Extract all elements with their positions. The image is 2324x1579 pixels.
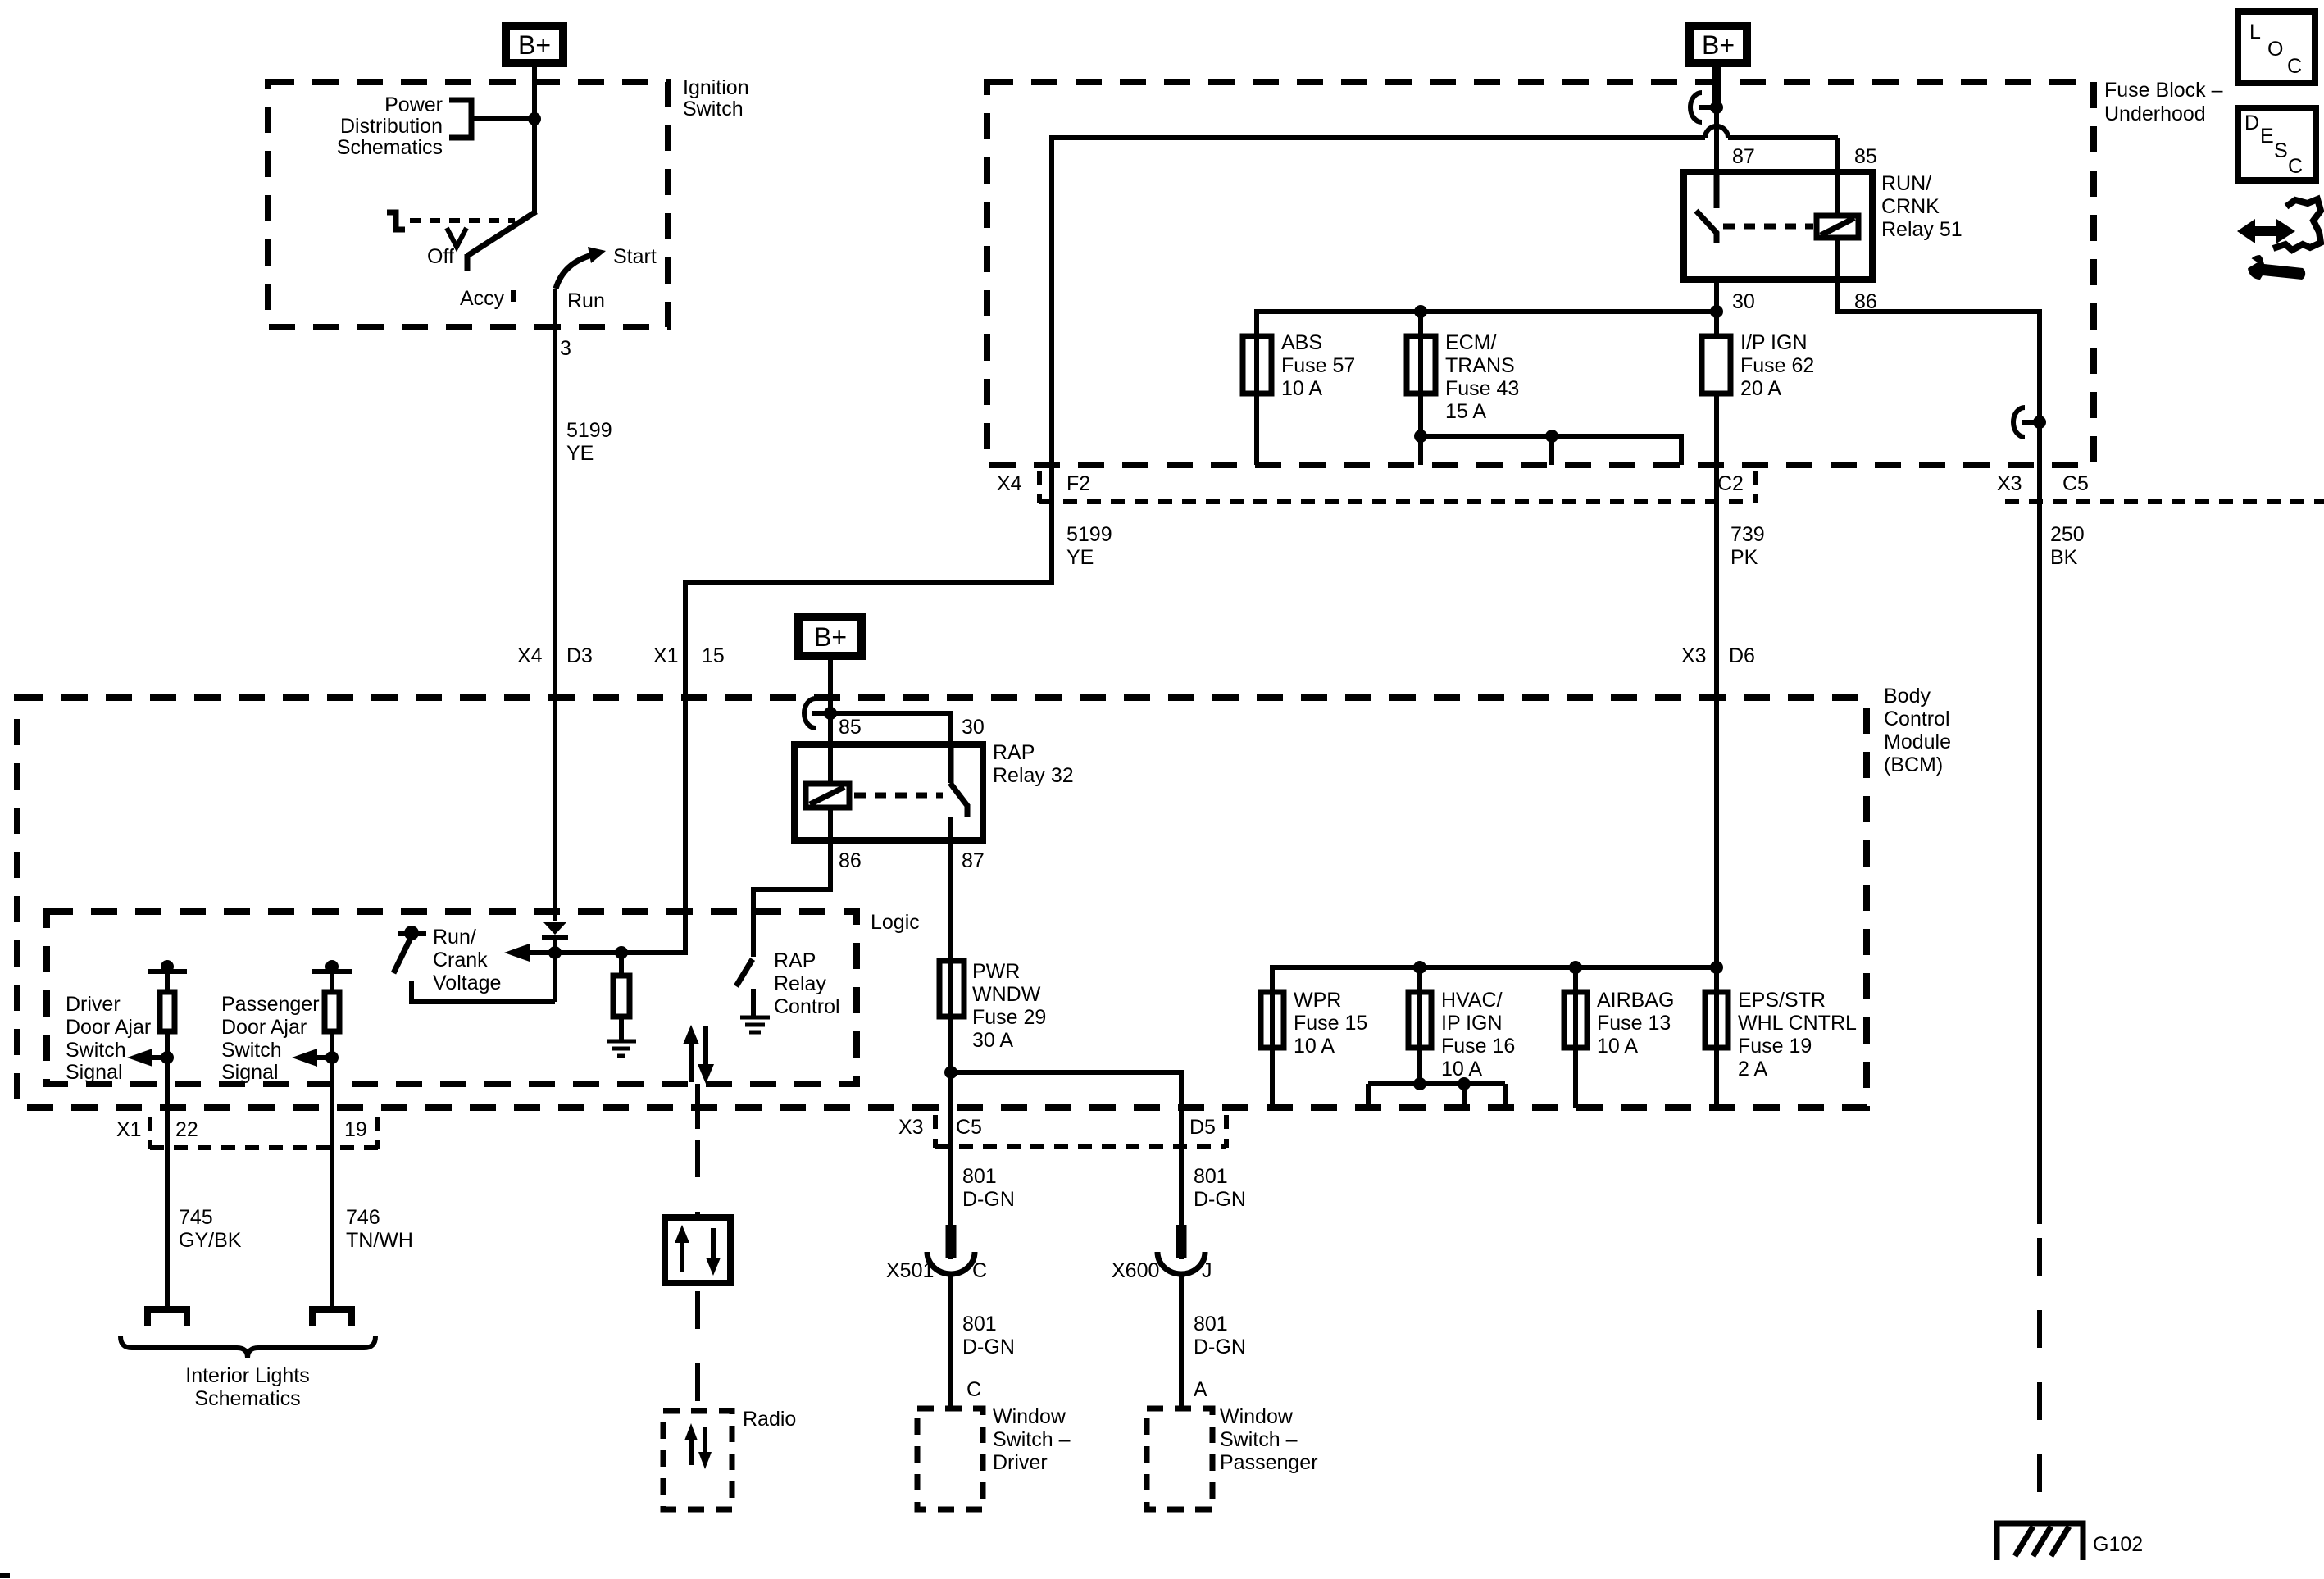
svg-text:15: 15	[702, 644, 725, 667]
wire: ignition Run output (circuit 5199 YE)	[553, 289, 557, 921]
fuse bus bar in fuse block	[1257, 312, 1717, 336]
svg-text:D-GN: D-GN	[1194, 1336, 1246, 1358]
ground (RAP relay control)	[740, 1017, 770, 1032]
svg-text:22: 22	[175, 1118, 198, 1141]
connector X1-15 labels	[653, 644, 725, 667]
svg-text:J: J	[1202, 1259, 1212, 1282]
svg-text:30: 30	[1732, 290, 1755, 313]
passenger door ajar switch signal resistor	[221, 960, 352, 1108]
svg-text:Fuse 29: Fuse 29	[972, 1006, 1046, 1029]
svg-text:Module: Module	[1884, 730, 1951, 753]
svg-text:TN/WH: TN/WH	[346, 1229, 413, 1252]
svg-text:F2: F2	[1066, 472, 1090, 495]
connector X1 22/19 band	[116, 1117, 378, 1149]
window switch passenger dashed box	[1147, 1405, 1318, 1509]
wire to RAP relay pin 30	[830, 713, 951, 744]
svg-text:X1: X1	[653, 644, 679, 667]
svg-text:Signal: Signal	[66, 1061, 123, 1084]
accy position tick	[511, 290, 516, 302]
svg-text:Run/: Run/	[433, 926, 476, 949]
svg-text:Door Ajar: Door Ajar	[66, 1016, 151, 1039]
svg-text:86: 86	[839, 849, 862, 872]
I/P IGN Fuse 62	[1702, 331, 1814, 400]
svg-text:739: 739	[1730, 523, 1765, 546]
BCM ignition fuse bus	[1272, 967, 1717, 992]
relay 51 pin 87 stub and switch blade	[1696, 172, 1717, 243]
svg-text:A: A	[1194, 1378, 1207, 1401]
off position dashed travel line	[410, 218, 515, 223]
svg-text:Relay 32: Relay 32	[993, 764, 1074, 787]
svg-text:D3: D3	[566, 644, 593, 667]
splice clip on 250 BK ground wire	[2013, 407, 2040, 437]
terminal (passenger circuit)	[312, 1309, 352, 1326]
svg-text:C: C	[972, 1259, 987, 1282]
RAP relay actuation dashed link	[854, 793, 943, 799]
relay 51 coil	[1817, 216, 1858, 238]
svg-text:WNDW: WNDW	[972, 983, 1041, 1006]
svg-text:IP IGN: IP IGN	[1441, 1012, 1503, 1035]
run/crank voltage switch	[393, 926, 501, 994]
svg-text:X600: X600	[1112, 1259, 1159, 1282]
svg-text:15 A: 15 A	[1445, 400, 1486, 423]
svg-text:Door Ajar: Door Ajar	[221, 1016, 307, 1039]
logic window command arrows	[683, 1025, 714, 1084]
svg-text:87: 87	[962, 849, 985, 872]
ground G102	[1997, 1523, 2143, 1560]
svg-text:Schematics: Schematics	[337, 136, 443, 159]
WPR Fuse 15	[1261, 989, 1367, 1108]
svg-text:10 A: 10 A	[1441, 1058, 1482, 1081]
driver door ajar signal arrow	[127, 1049, 174, 1067]
svg-text:Schematics: Schematics	[194, 1387, 300, 1410]
relay 51 pin 86 wire to ground circuit	[1838, 238, 2040, 1224]
svg-text:RAP: RAP	[774, 949, 816, 972]
svg-text:Relay: Relay	[774, 972, 826, 995]
svg-text:20 A: 20 A	[1740, 377, 1781, 400]
connector X3-D6 labels	[1681, 644, 1755, 667]
LOC reference box	[2238, 11, 2315, 83]
relay 51 actuation dashed link	[1723, 224, 1813, 230]
off direction chevron	[447, 228, 466, 247]
terminal (driver circuit)	[148, 1309, 187, 1326]
RAP relay 32	[794, 716, 1074, 872]
svg-text:801: 801	[1194, 1165, 1228, 1188]
wire from B+ to ignition switch common	[532, 63, 537, 213]
svg-text:PWR: PWR	[972, 960, 1020, 983]
svg-text:Window: Window	[993, 1405, 1066, 1428]
start travel curve with arrowhead	[556, 247, 606, 289]
window switch driver dashed box	[917, 1405, 1071, 1509]
svg-text:S: S	[2274, 139, 2288, 162]
wire: 739 PK from fuse 62 through C2 to BCM X3-D6	[1714, 394, 1719, 967]
svg-text:801: 801	[1194, 1313, 1228, 1336]
svg-text:B+: B+	[814, 622, 847, 652]
svg-text:Run: Run	[567, 289, 605, 312]
svg-text:RAP: RAP	[993, 741, 1035, 764]
svg-text:Ignition: Ignition	[683, 76, 749, 99]
B+ battery feed (fuse block)	[1690, 26, 1747, 63]
body control module dashed box	[17, 685, 1951, 1108]
B+ battery feed (RAP relay)	[798, 617, 862, 656]
node HVAC tap	[1413, 961, 1426, 974]
svg-text:CRNK: CRNK	[1881, 195, 1940, 218]
relay 51 pin 85 wire	[1835, 138, 1840, 216]
svg-text:WHL CNTRL: WHL CNTRL	[1738, 1012, 1857, 1035]
svg-text:PK: PK	[1730, 546, 1758, 569]
dashed wire to radio	[695, 1291, 700, 1411]
svg-text:Voltage: Voltage	[433, 972, 501, 994]
svg-text:Switch –: Switch –	[993, 1428, 1071, 1451]
inline connector X600 pin J	[1112, 1225, 1212, 1282]
diagnostic tool icon	[2237, 199, 2321, 280]
svg-text:C5: C5	[2062, 472, 2089, 495]
svg-text:X3: X3	[1681, 644, 1707, 667]
driver door ajar switch signal resistor	[66, 960, 187, 1108]
svg-text:Switch: Switch	[221, 1039, 282, 1062]
node at 250 BK splice	[2033, 416, 2046, 429]
wire B+ into fuse block down to relay 51 pin 87	[1714, 63, 1719, 172]
svg-text:Fuse 19: Fuse 19	[1738, 1035, 1812, 1058]
node pin30 / fuse bus	[1710, 305, 1723, 318]
svg-text:Passenger: Passenger	[221, 993, 320, 1016]
svg-text:YE: YE	[566, 442, 594, 465]
svg-text:30 A: 30 A	[972, 1029, 1013, 1052]
wire driver window circuit	[948, 1072, 953, 1408]
relay 51 pin 30 wire	[1714, 280, 1719, 336]
svg-text:Switch: Switch	[683, 98, 744, 121]
svg-text:EPS/STR: EPS/STR	[1738, 989, 1826, 1012]
svg-text:85: 85	[839, 716, 862, 739]
svg-text:19: 19	[344, 1118, 367, 1141]
HVAC fuse output tie bar	[1368, 1077, 1505, 1108]
node: power distribution tap	[528, 112, 541, 125]
svg-text:D: D	[2244, 111, 2259, 134]
svg-text:10 A: 10 A	[1597, 1035, 1638, 1058]
EPS/STR WHL CNTRL Fuse 19	[1705, 967, 1857, 1108]
svg-text:Fuse 43: Fuse 43	[1445, 377, 1519, 400]
power distribution schematics bracket	[337, 93, 471, 159]
svg-text:250: 250	[2050, 523, 2085, 546]
wire: feed bus with hop over B+ wire	[1052, 126, 1838, 138]
off position stop symbol	[387, 212, 405, 230]
HVAC/IP IGN Fuse 16	[1408, 967, 1515, 1084]
ECM fuse output tie bar	[1414, 430, 1681, 465]
svg-text:Fuse 62: Fuse 62	[1740, 354, 1814, 377]
svg-text:RUN/: RUN/	[1881, 172, 1931, 195]
svg-text:Interior Lights: Interior Lights	[185, 1364, 309, 1387]
svg-text:TRANS: TRANS	[1445, 354, 1515, 377]
RAP relay coil	[806, 784, 849, 808]
RAP relay pin 30 stub and blade	[950, 744, 968, 817]
svg-text:Underhood: Underhood	[2104, 102, 2206, 125]
run/crank voltage node wire with arrow	[504, 938, 685, 1002]
svg-text:ABS: ABS	[1281, 331, 1322, 354]
ground (logic resistor)	[607, 1041, 636, 1056]
svg-text:85: 85	[1854, 145, 1877, 168]
svg-text:B+: B+	[1702, 30, 1735, 60]
svg-text:Crank: Crank	[433, 949, 488, 972]
svg-text:Driver: Driver	[993, 1451, 1048, 1474]
svg-text:GY/BK: GY/BK	[179, 1229, 242, 1252]
ignition switch dashed box	[268, 76, 749, 327]
node AIRBAG tap	[1569, 961, 1582, 974]
node window feed split	[944, 1066, 957, 1079]
svg-text:G102: G102	[2093, 1533, 2143, 1556]
wire run/crank switch leg	[412, 981, 555, 1002]
svg-text:I/P IGN: I/P IGN	[1740, 331, 1808, 354]
RAP relay pin 86 wire to logic control	[753, 808, 830, 957]
svg-text:745: 745	[179, 1206, 213, 1229]
svg-text:Body: Body	[1884, 685, 1931, 708]
ignition switch blade (Off position arm)	[467, 212, 536, 271]
window motor direction box	[665, 1217, 730, 1283]
svg-text:Relay 51: Relay 51	[1881, 218, 1962, 241]
svg-text:D6: D6	[1729, 644, 1755, 667]
svg-text:Passenger: Passenger	[1220, 1451, 1318, 1474]
svg-text:Signal: Signal	[221, 1061, 279, 1084]
svg-text:Fuse 57: Fuse 57	[1281, 354, 1355, 377]
node at RAP splice	[824, 707, 837, 720]
AIRBAG Fuse 13	[1564, 967, 1674, 1108]
svg-text:C5: C5	[956, 1116, 982, 1139]
connector X4-D3 labels	[517, 644, 593, 667]
RAP relay pin 87 stub	[948, 817, 953, 840]
ECM/TRANS Fuse 43	[1407, 312, 1519, 465]
svg-text:C: C	[966, 1378, 981, 1401]
splice clip at RAP B+	[804, 698, 830, 728]
svg-text:Driver: Driver	[66, 993, 121, 1016]
node at splice	[1710, 101, 1723, 114]
svg-text:Fuse 13: Fuse 13	[1597, 1012, 1671, 1035]
svg-text:X4: X4	[997, 472, 1022, 495]
svg-text:30: 30	[962, 716, 985, 739]
wire B+ to RAP relay pin 85	[828, 656, 833, 784]
svg-text:(BCM): (BCM)	[1884, 753, 1943, 776]
dashed wire logic to radio	[695, 1084, 700, 1217]
svg-text:5199: 5199	[1066, 523, 1112, 546]
svg-text:Radio: Radio	[743, 1408, 796, 1431]
PWR WNDW Fuse 29	[939, 960, 1046, 1052]
wire: left feed drop to F2 and jog to BCM X1-15	[685, 135, 1052, 955]
connector X4/F2-C2 row	[997, 471, 1755, 503]
svg-text:Fuse 16: Fuse 16	[1441, 1035, 1515, 1058]
svg-text:Control: Control	[1884, 708, 1950, 730]
radio dashed box	[663, 1408, 796, 1509]
svg-text:Off: Off	[427, 245, 454, 268]
svg-text:D-GN: D-GN	[1194, 1188, 1246, 1211]
wire bracket to node	[471, 116, 534, 121]
svg-text:C2: C2	[1717, 472, 1744, 495]
svg-text:Start: Start	[613, 245, 657, 268]
logic dashed box	[47, 911, 920, 1084]
svg-text:HVAC/: HVAC/	[1441, 989, 1503, 1012]
svg-text:C: C	[2287, 55, 2302, 78]
node ECM fuse tap	[1414, 305, 1427, 318]
svg-text:10 A: 10 A	[1281, 377, 1322, 400]
svg-text:YE: YE	[1066, 546, 1094, 569]
svg-text:D5: D5	[1189, 1116, 1216, 1139]
svg-text:L: L	[2249, 20, 2261, 43]
svg-text:801: 801	[962, 1313, 997, 1336]
RAP relay control switch	[736, 949, 840, 1018]
splice clip at B+ node	[1690, 93, 1717, 122]
svg-text:87: 87	[1732, 145, 1755, 168]
svg-text:AIRBAG: AIRBAG	[1597, 989, 1674, 1012]
dashed ground wire 250 BK	[2037, 1238, 2042, 1522]
svg-text:BK: BK	[2050, 546, 2078, 569]
svg-text:801: 801	[962, 1165, 997, 1188]
svg-text:WPR: WPR	[1294, 989, 1341, 1012]
diode on D3 ignition feed	[542, 922, 568, 938]
connector X3/C5 row (fuse block right)	[1997, 472, 2324, 502]
svg-text:10 A: 10 A	[1294, 1035, 1335, 1058]
svg-text:3: 3	[560, 337, 571, 360]
svg-text:Switch –: Switch –	[1220, 1428, 1298, 1451]
svg-text:X1: X1	[116, 1118, 142, 1141]
wire RAP relay pin 87 to PWR WNDW fuse	[948, 840, 953, 1072]
fuse block underhood dashed box	[987, 79, 2223, 465]
svg-text:X3: X3	[1997, 472, 2022, 495]
svg-text:Accy: Accy	[460, 287, 505, 310]
svg-text:5199: 5199	[566, 419, 612, 442]
svg-text:X501: X501	[886, 1259, 934, 1282]
svg-text:C: C	[2288, 155, 2303, 178]
svg-text:D-GN: D-GN	[962, 1336, 1015, 1358]
svg-text:ECM/: ECM/	[1445, 331, 1497, 354]
inline connector X501 pin C	[886, 1225, 987, 1282]
svg-text:O: O	[2267, 38, 2283, 61]
svg-text:Switch: Switch	[66, 1039, 126, 1062]
B+ battery feed (ignition switch)	[506, 26, 563, 63]
corner mark	[0, 1573, 10, 1578]
wire passenger door ajar to interior lights	[330, 1108, 334, 1307]
svg-text:Logic: Logic	[871, 911, 920, 934]
svg-text:X3: X3	[898, 1116, 924, 1139]
svg-text:B+: B+	[518, 30, 551, 60]
DESC reference box	[2238, 108, 2316, 180]
connector X3 C5/D5 band	[898, 1115, 1226, 1148]
wire driver door ajar to interior lights	[165, 1108, 170, 1307]
svg-text:Fuse 15: Fuse 15	[1294, 1012, 1367, 1035]
ABS Fuse 57	[1243, 331, 1355, 465]
passenger door ajar signal arrow	[292, 1049, 339, 1067]
wire to passenger window switch D5	[951, 1072, 1181, 1408]
node EPS tap	[1710, 961, 1723, 974]
svg-text:D-GN: D-GN	[962, 1188, 1015, 1211]
interior lights schematics brace	[121, 1336, 375, 1410]
svg-text:Window: Window	[1220, 1405, 1294, 1428]
svg-text:X4: X4	[517, 644, 543, 667]
svg-text:Power: Power	[384, 93, 443, 116]
svg-text:746: 746	[346, 1206, 380, 1229]
svg-text:Fuse Block –: Fuse Block –	[2104, 79, 2223, 102]
pull-down resistor	[613, 953, 630, 1041]
svg-text:2 A: 2 A	[1738, 1058, 1767, 1081]
svg-text:Distribution: Distribution	[340, 115, 443, 138]
svg-text:E: E	[2260, 125, 2274, 148]
RUN/CRNK relay 51	[1684, 145, 1962, 313]
svg-text:Control: Control	[774, 995, 840, 1018]
